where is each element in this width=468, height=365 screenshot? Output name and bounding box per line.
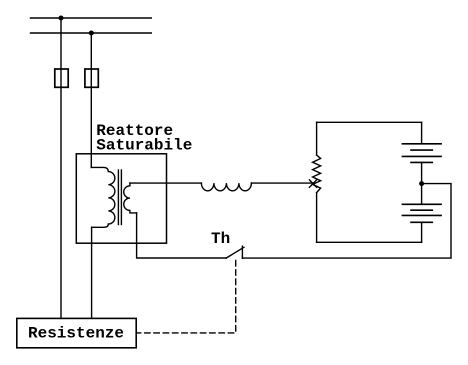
transformer box (saturable reactor enclosure) — [76, 154, 166, 243]
wire phase2 vertical lower (primary bottom to resistor box) — [91, 227, 93, 318]
wire right loop left upper — [316, 122, 318, 155]
inductor L1 — [201, 183, 251, 191]
wire right loop bottom — [317, 241, 422, 243]
node junction dot battery midpoint — [419, 181, 424, 186]
wire right loop left lower — [316, 193, 318, 243]
dashed control line from switch to resistor box — [137, 261, 236, 333]
transformer T1 secondary winding — [124, 183, 137, 213]
battery B2 plate long top — [402, 203, 441, 205]
transformer T1 primary winding — [91, 167, 115, 227]
wire inductor to wiper — [251, 182, 313, 184]
svg-text:Th: Th — [211, 230, 230, 248]
transformer T1 core line 2 — [120, 170, 122, 225]
battery B1 plate short bottom — [411, 161, 432, 163]
wire phase1 vertical — [60, 18, 62, 318]
transformer T1 core line 1 — [117, 170, 119, 225]
wire right loop top — [317, 121, 422, 123]
node junction dot phase2 on L2 — [89, 31, 94, 36]
svg-text:Saturabile: Saturabile — [96, 137, 192, 155]
fuse F1 — [55, 69, 68, 87]
resistor bank box — [17, 318, 136, 347]
battery B2 plate short — [411, 209, 432, 211]
fuse F2 — [85, 69, 98, 87]
wire between batteries — [421, 162, 423, 204]
wire secondary bottom drop — [137, 213, 227, 258]
battery B2 plate short bottom — [411, 221, 432, 223]
node junction dot phase1 on L1 — [59, 16, 64, 21]
wiper X contact — [309, 180, 316, 187]
wire right loop right upper — [421, 122, 423, 144]
battery B1 plate long top — [402, 143, 441, 145]
wire below battery B2 — [421, 222, 423, 242]
battery B2 plate long — [402, 214, 441, 216]
switch Th blade — [226, 247, 244, 258]
bus line L1 — [31, 17, 152, 19]
battery B1 plate long — [402, 155, 441, 157]
battery B1 plate short — [411, 149, 432, 151]
wire secondary top to inductor — [130, 182, 202, 184]
svg-text:Resistenze: Resistenze — [28, 325, 124, 343]
rheostat R1 zigzag — [313, 155, 321, 193]
wire phase2 vertical upper — [90, 33, 92, 167]
wire battery midpoint to right drop — [242, 184, 451, 259]
bus line L2 — [31, 32, 152, 34]
switch Th fixed contact tick — [241, 246, 243, 258]
